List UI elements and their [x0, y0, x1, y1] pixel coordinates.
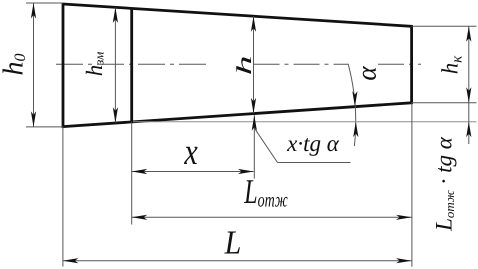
label h: [232, 55, 256, 75]
L arrow left: [63, 258, 79, 263]
label x*tg alpha: [286, 131, 340, 156]
top-right extension line: [412, 25, 477, 27]
svg-text:L: L: [224, 224, 242, 261]
L_otj dimension line: [132, 216, 412, 218]
h_k dimension line: [468, 26, 470, 144]
bottom-right extension line: [412, 102, 477, 104]
h_zm arrow up: [113, 7, 118, 23]
svg-text:x·tg α: x·tg α: [286, 131, 340, 156]
h0 dimension line: [33, 3, 35, 127]
h_zm arrow down: [113, 107, 118, 123]
label h0: [0, 54, 29, 76]
h0 arrow down: [31, 111, 36, 127]
h_k arrow down (shared with Lotj*tg): [466, 87, 471, 103]
x arrow left: [132, 169, 148, 174]
wedge body outline: [63, 4, 412, 127]
centerline segment 1: [56, 63, 209, 65]
centerline segment 3: [378, 63, 421, 65]
h0 arrow up: [31, 3, 36, 19]
x*tg leader slant: [254, 128, 277, 163]
label alpha: [352, 66, 382, 81]
h0 top extension line: [26, 2, 63, 4]
label L: [224, 224, 242, 261]
svg-text:h: h: [232, 55, 256, 75]
L_otj arrow right: [396, 215, 412, 220]
label x: [183, 132, 197, 173]
h dimension line: [253, 16, 255, 113]
h arrow up: [251, 16, 256, 32]
label Lotj*tg alpha: [431, 136, 457, 232]
L arrow right: [396, 258, 412, 263]
label L_otj: [243, 173, 287, 212]
Lotj*tg arrow up (outside): [466, 122, 471, 138]
angle leader arc: [348, 64, 356, 146]
x*tg underline: [278, 162, 351, 164]
L dimension line: [63, 260, 412, 262]
x leader extension line: [253, 115, 255, 178]
internal section line: [130, 8, 133, 122]
h0 bottom extension line: [26, 126, 63, 128]
svg-text:x: x: [183, 132, 197, 173]
centerline segment 2: [254, 63, 349, 65]
long reference line at annealed-edge level: [133, 121, 477, 123]
label h_zm: [82, 52, 107, 77]
right lower extension line: [411, 103, 413, 267]
h_k arrow up: [466, 26, 471, 42]
label h_k: [438, 55, 466, 75]
h_zm dimension line: [114, 7, 116, 122]
angle arrow up at reference line: [353, 122, 358, 138]
angle arrow down at bottom edge: [352, 91, 357, 107]
x arrow right: [238, 169, 254, 174]
x*tg arrow up at bottom edge: [252, 115, 257, 131]
L_otj arrow left: [132, 215, 148, 220]
section lower extension line: [131, 122, 133, 224]
h arrow down: [251, 98, 256, 114]
svg-text:α: α: [352, 66, 382, 81]
left lower extension line: [62, 127, 64, 267]
x dimension line: [132, 171, 254, 173]
